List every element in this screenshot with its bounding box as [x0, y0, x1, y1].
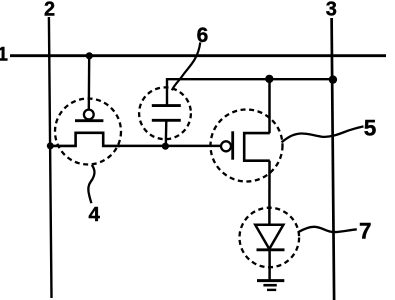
wire: scan line 1 (horizontal) [10, 54, 386, 57]
svg-text:5: 5 [364, 115, 377, 140]
node: junction dot on line 1 (gate feed) [86, 52, 93, 59]
LED 7 cathode lead [268, 250, 271, 281]
svg-text:2: 2 [44, 0, 55, 21]
svg-text:7: 7 [359, 219, 372, 244]
transistor 4 (switching TFT) [50, 99, 121, 165]
transistor 5 gate bar [231, 131, 234, 159]
svg-text:6: 6 [197, 24, 209, 47]
transistor 4 gate bubble [84, 110, 94, 120]
node: junction dot line2 / row wire [47, 142, 54, 149]
leader line for label 6 [172, 42, 200, 90]
ground bar 1 [257, 279, 284, 282]
svg-text:3: 3 [326, 0, 337, 21]
node: junction dot capacitor bottom / row wire [162, 143, 169, 150]
svg-text:1: 1 [0, 45, 8, 66]
wire: drain vertical (power dot to transistor 5) [268, 79, 271, 133]
node: junction dot power wire / line 3 [329, 75, 337, 83]
wire: gate feed to transistor 4 [88, 56, 91, 111]
transistor 4 dashed enclosure [55, 99, 121, 165]
capacitor 6 dashed enclosure [139, 87, 191, 139]
ground bar 3 [267, 289, 276, 291]
LED 7 dashed enclosure [239, 208, 299, 268]
ground bar 2 [263, 284, 276, 287]
capacitor 6 bottom lead [165, 120, 168, 146]
transistor 5 channel (bracket with drain/source arms) [244, 133, 270, 161]
node: junction dot power wire / drain of transistor 5 [265, 75, 273, 83]
wire: power line 3 (vertical) [332, 18, 335, 300]
transistor 4 gate bar [75, 119, 103, 122]
transistor 5 dashed enclosure [211, 110, 283, 182]
wire: power feed (cap top lead, corner, to line 3) [167, 79, 333, 105]
leader line for label 7 [298, 227, 357, 233]
wire: data line 2 (vertical) [49, 17, 52, 298]
capacitor 6 top plate [152, 104, 181, 107]
capacitor 6 bottom plate [152, 119, 181, 122]
transistor 5 gate bubble [221, 141, 231, 151]
LED 7 (organic EL element) [239, 208, 299, 281]
wire: row wire from transistor 4 to transistor 5 gate [118, 145, 222, 148]
wire: source vertical (transistor 5 to LED anode) [268, 161, 271, 225]
leader line for label 5 [282, 126, 364, 142]
transistor 4 channel (hat) [50, 133, 120, 146]
ground [257, 281, 284, 290]
svg-text:4: 4 [88, 203, 100, 226]
LED 7 cathode bar [257, 248, 285, 251]
capacitor 6 (storage) [139, 87, 191, 146]
transistor 5 (drive TFT) [211, 110, 283, 182]
LED 7 anode triangle [255, 225, 283, 249]
leader line for label 4 [88, 165, 94, 203]
